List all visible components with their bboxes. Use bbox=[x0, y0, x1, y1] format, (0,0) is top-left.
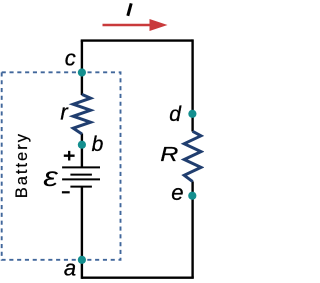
battery minus sign bbox=[62, 191, 70, 193]
label I bbox=[128, 3, 131, 15]
battery dashed enclosure box bbox=[2, 72, 121, 259]
svg-text:c: c bbox=[65, 46, 76, 71]
battery plate long lower bbox=[62, 178, 100, 180]
svg-text:Battery: Battery bbox=[13, 132, 31, 198]
wire: top horizontal bbox=[81, 39, 193, 41]
resistor R (zigzag) bbox=[184, 131, 201, 181]
resistor r (zigzag) bbox=[73, 94, 90, 134]
svg-text:ε: ε bbox=[43, 163, 58, 193]
wire: left lower vertical (a up to battery bottom plate) bbox=[81, 187, 83, 279]
battery plate long top bbox=[62, 166, 100, 168]
battery plate short upper bbox=[70, 174, 92, 176]
svg-text:a: a bbox=[64, 255, 76, 280]
node c dot bbox=[78, 68, 86, 76]
battery plus sign bbox=[64, 151, 75, 161]
svg-text:e: e bbox=[171, 180, 183, 205]
wire: left middle vertical (battery top plate up through b to r) bbox=[81, 134, 83, 168]
node b dot bbox=[78, 141, 86, 149]
wire: right upper vertical bbox=[191, 39, 193, 131]
node d dot bbox=[188, 110, 196, 118]
battery plate short bottom bbox=[70, 186, 92, 188]
node e dot bbox=[188, 192, 196, 200]
current arrow (red) bbox=[103, 24, 152, 26]
wire: bottom horizontal bbox=[82, 277, 194, 279]
wire: top segment c to top-left corner bbox=[81, 41, 83, 95]
svg-text:d: d bbox=[169, 103, 182, 126]
svg-text:b: b bbox=[92, 133, 104, 156]
node a dot bbox=[78, 256, 86, 264]
wire: right lower vertical bbox=[191, 181, 193, 277]
svg-text:R: R bbox=[160, 143, 178, 165]
